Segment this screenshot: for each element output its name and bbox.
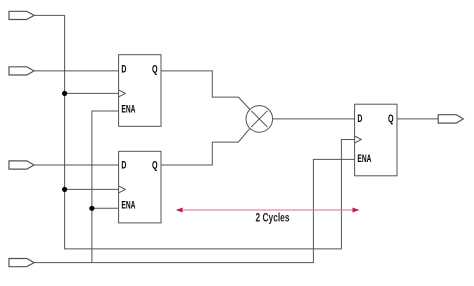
D flip-flop FF2 <box>119 151 161 223</box>
svg-text:D: D <box>121 160 126 172</box>
wire FF3 Q to output pin <box>397 118 438 120</box>
input pin enable <box>9 259 34 267</box>
svg-text:D: D <box>121 64 126 76</box>
wire enable net trunk <box>34 159 355 262</box>
wire data2 to FF2 D <box>34 164 119 166</box>
junction dot enable-FF2 <box>89 206 94 211</box>
input pin data2 <box>9 161 34 169</box>
wire clock net trunk <box>34 15 355 249</box>
annotation arrow 2 cycles <box>176 208 360 213</box>
svg-text:Q: Q <box>152 160 158 172</box>
svg-text:ENA: ENA <box>121 104 135 116</box>
D flip-flop FF3 <box>355 104 397 176</box>
wire multiplier to FF3 D <box>273 118 355 120</box>
svg-text:ENA: ENA <box>121 200 135 212</box>
svg-text:D: D <box>357 113 362 125</box>
junction dot clock-FF1 <box>62 91 67 96</box>
svg-text:ENA: ENA <box>357 153 371 165</box>
wire FF2 Q to multiplier <box>161 128 250 165</box>
svg-text:2 Cycles: 2 Cycles <box>256 211 290 225</box>
wire enable branch riser <box>92 111 119 263</box>
wire FF1 Q to multiplier <box>161 71 250 110</box>
junction dot clock-FF2 <box>62 187 67 192</box>
wire clock branch to FF2 clk <box>65 188 119 190</box>
wire clock branch to FF1 clk <box>65 92 119 94</box>
input pin data1 <box>9 67 34 75</box>
D flip-flop FF1 <box>119 55 161 127</box>
svg-text:Q: Q <box>388 113 394 125</box>
multiplier M1 <box>246 106 273 133</box>
svg-text:Q: Q <box>152 64 158 76</box>
wire enable branch to FF2 ENA <box>92 207 119 209</box>
output pin result <box>438 115 463 123</box>
wire data1 to FF1 D <box>34 70 119 72</box>
input pin clock <box>9 11 34 19</box>
